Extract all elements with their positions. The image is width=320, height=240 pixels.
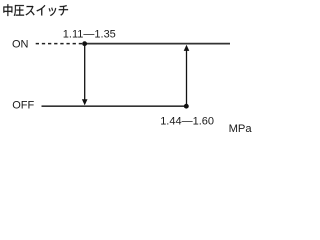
arrowhead up to ON line [184,45,190,51]
node dot at OFF threshold [184,104,189,109]
wire down from ON dot [84,44,86,100]
svg-text:ON: ON [12,39,29,51]
title 中圧スイッチ (medium pressure switch) [3,4,68,16]
OFF level line [42,105,187,107]
svg-text:1.11—1.35: 1.11—1.35 [63,28,116,40]
svg-text:1.44—1.60: 1.44—1.60 [160,116,214,128]
node dot at ON threshold [82,41,87,46]
ON level line [84,43,230,45]
svg-text:MPa: MPa [229,123,253,135]
wire up from OFF dot [186,51,188,107]
dashed lead-in wire to ON level [36,43,83,45]
svg-text:OFF: OFF [12,100,34,112]
arrowhead down to OFF line [82,99,88,105]
